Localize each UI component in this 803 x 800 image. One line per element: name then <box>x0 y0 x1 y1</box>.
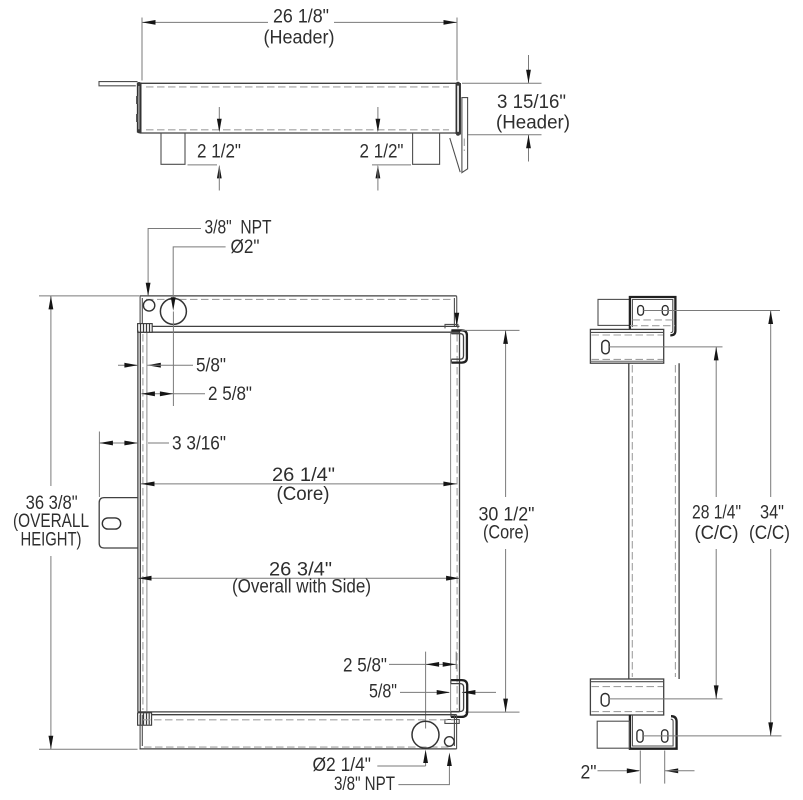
extension 28 1/4 top <box>609 346 722 348</box>
core right hidden line <box>456 334 458 710</box>
top tank hidden line <box>146 298 452 300</box>
extension line side edge bottom <box>455 652 457 669</box>
bottom clamp foot <box>445 720 459 724</box>
top joint line lower <box>138 331 460 333</box>
port small circle 3/8 NPT bottom <box>445 737 455 747</box>
svg-text:(C/C): (C/C) <box>749 523 790 544</box>
svg-text:5/8": 5/8" <box>369 682 397 703</box>
bottom clamp caps <box>450 680 452 717</box>
bottom L-bracket inner <box>632 715 673 746</box>
header bottom edge <box>140 132 461 134</box>
side channel top leader <box>456 297 458 320</box>
dimension 28 1/4 C/C <box>715 347 717 699</box>
svg-text:28 1/4": 28 1/4" <box>692 503 741 524</box>
svg-text:HEIGHT): HEIGHT) <box>21 530 82 551</box>
bottom bracket slot 1 <box>637 730 643 742</box>
left flange strip <box>99 82 138 86</box>
header hidden line top <box>146 86 449 88</box>
side body right edge <box>678 363 680 679</box>
bottom clamp channel inner <box>451 684 464 712</box>
core right outer line <box>459 331 461 712</box>
dimension 5/8 top left <box>118 364 137 366</box>
bottom tank right edge <box>454 715 456 749</box>
bottom left tab <box>597 721 629 748</box>
top mounting bracket <box>590 329 663 363</box>
svg-text:(Core): (Core) <box>483 523 529 544</box>
leader 3/8 NPT bottom <box>398 764 449 785</box>
top clamp channel outer <box>451 330 467 362</box>
bottom tank hidden line upper <box>143 719 454 721</box>
top joint line upper <box>140 325 460 327</box>
core left line 2 <box>139 332 141 712</box>
core right face line <box>450 333 452 711</box>
svg-text:3/8" NPT: 3/8" NPT <box>205 218 272 239</box>
svg-text:3 15/16": 3 15/16" <box>497 92 566 113</box>
dimension 3 15/16 header <box>462 82 542 84</box>
side body hidden right <box>674 365 676 677</box>
leader dia 2 top <box>173 247 225 298</box>
dimension 26 1/8 header <box>142 21 457 23</box>
svg-text:34": 34" <box>760 503 784 524</box>
dimension 26 3/4 overall with side <box>138 577 460 579</box>
top tank right edge <box>454 296 456 327</box>
left bracket slot <box>102 518 120 529</box>
svg-text:3/8" NPT: 3/8" NPT <box>334 774 395 795</box>
left mounting bracket <box>99 498 138 548</box>
left end bar weld <box>137 83 139 133</box>
extension 34 top <box>644 310 781 312</box>
dimension 2 5/8 top left <box>141 393 205 395</box>
side body left edge <box>628 363 630 679</box>
svg-text:(Header): (Header) <box>264 28 335 49</box>
svg-text:26 1/8": 26 1/8" <box>273 7 329 28</box>
dimension 26 1/4 core width <box>141 483 457 485</box>
bottom mounting bracket <box>590 679 663 715</box>
top tank top edge <box>140 295 457 297</box>
header hidden line bottom <box>146 129 449 131</box>
top bracket slot 1 <box>638 306 644 316</box>
svg-text:2 5/8": 2 5/8" <box>208 384 252 405</box>
port big circle 2in <box>160 298 186 324</box>
dimension 2 inch slots <box>639 751 641 784</box>
leader dia 2 1/4 bottom <box>377 765 425 767</box>
svg-text:(Core): (Core) <box>277 484 330 505</box>
top tank left edge <box>140 296 142 327</box>
core left face line <box>146 333 148 711</box>
bottom L-bracket outer <box>630 715 677 749</box>
svg-text:5/8": 5/8" <box>196 356 226 377</box>
bottom tank hidden line lower <box>144 746 452 748</box>
core left hidden line <box>142 334 144 710</box>
bottom mounting bracket slot <box>601 694 609 707</box>
port small circle 3/8 NPT <box>143 300 154 311</box>
svg-text:2": 2" <box>581 763 597 784</box>
top clamp plate <box>445 324 458 328</box>
svg-text:Ø2 1/4": Ø2 1/4" <box>313 755 372 776</box>
dimension 2 1/2 right tab <box>377 107 379 131</box>
bottom joint line upper <box>138 711 460 713</box>
bottom bracket slot 2 <box>662 730 668 742</box>
bottom joint line lower <box>140 714 457 716</box>
bottom tank left edge <box>140 715 142 749</box>
right end flange plate <box>462 98 468 173</box>
top left tab <box>598 299 630 325</box>
extension 34 bottom <box>643 735 781 737</box>
svg-text:(Overall with Side): (Overall with Side) <box>232 577 371 598</box>
extension line bottom circle center <box>425 652 427 766</box>
top mounting bracket slot <box>602 340 609 353</box>
top bracket slot 2 <box>662 306 668 316</box>
svg-text:3 3/16": 3 3/16" <box>172 434 226 455</box>
bottom tank bottom edge <box>140 748 457 750</box>
right end bar weld <box>455 83 457 134</box>
dimension 34 C/C <box>770 311 772 736</box>
leader 3/8 NPT top <box>148 229 201 296</box>
side body hidden left <box>631 365 633 677</box>
header tab left <box>161 133 185 164</box>
extension line circle center <box>172 312 174 407</box>
weld tab top left <box>138 324 153 333</box>
right flange diagonal edge <box>450 138 460 172</box>
top clamp channel inner <box>451 334 463 360</box>
svg-text:26 1/4": 26 1/4" <box>272 465 335 486</box>
dimension 30 1/2 core height <box>462 329 520 331</box>
svg-text:2 1/2": 2 1/2" <box>197 142 241 163</box>
header tab right <box>413 133 440 164</box>
top clamp caps <box>450 330 452 362</box>
extension 28 1/4 bottom <box>609 698 722 700</box>
svg-text:(Header): (Header) <box>496 113 570 134</box>
dimension 2 5/8 bottom <box>389 663 456 665</box>
dimension 3 3/16 <box>99 442 137 444</box>
top L-bracket inner <box>632 300 672 333</box>
svg-text:(C/C): (C/C) <box>695 523 739 544</box>
dimension 5/8 bottom <box>400 691 449 693</box>
port big circle 2 1/4 <box>412 721 439 748</box>
dimension 2 1/2 left tab <box>218 107 220 131</box>
weld tab bottom left <box>138 713 152 725</box>
top L-bracket outer <box>630 297 676 335</box>
header top edge <box>140 82 457 84</box>
bottom clamp channel outer <box>451 680 467 717</box>
dimension 36 3/8 overall height <box>39 295 139 297</box>
svg-text:Ø2": Ø2" <box>231 237 260 258</box>
core left outer line <box>137 331 139 712</box>
svg-text:2 1/2": 2 1/2" <box>360 142 404 163</box>
svg-text:2 5/8": 2 5/8" <box>343 656 387 677</box>
bracket hidden rows <box>632 319 672 321</box>
right flange hidden line <box>463 139 465 152</box>
